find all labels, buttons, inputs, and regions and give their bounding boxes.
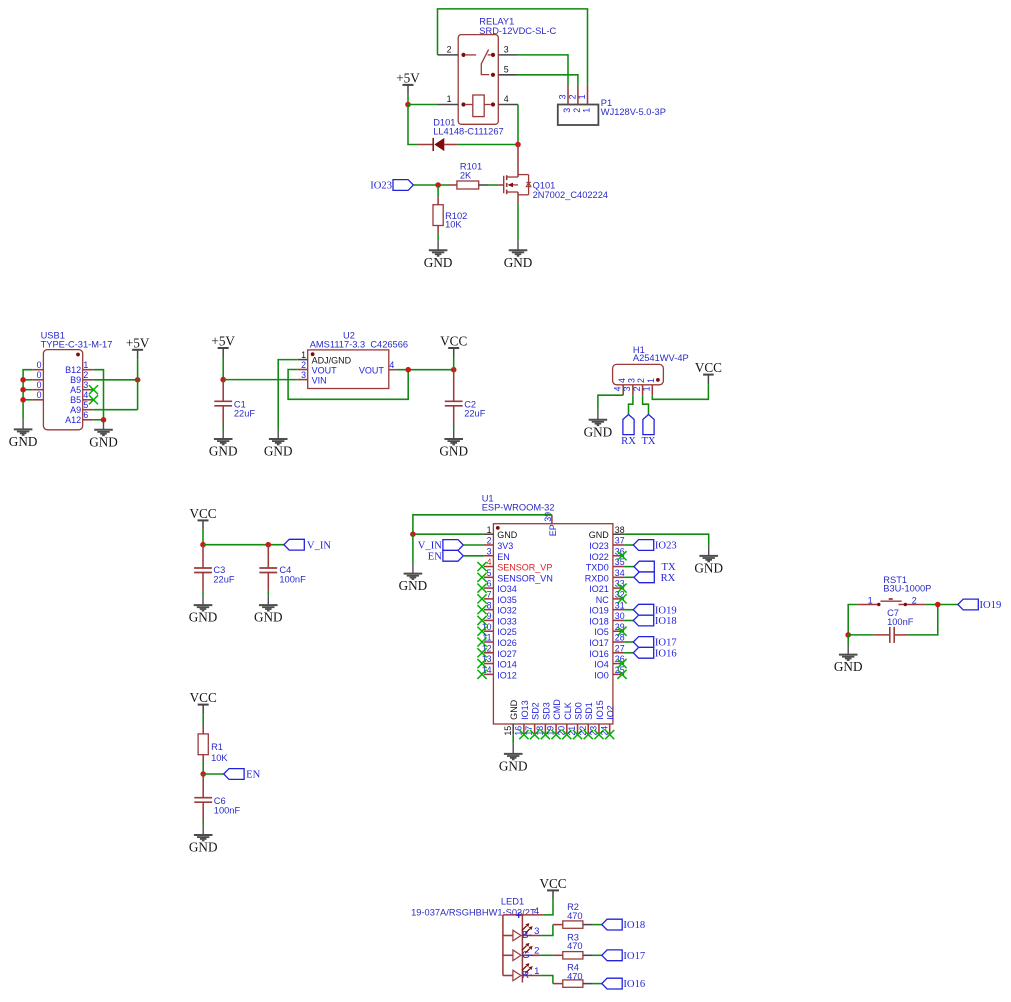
svg-text:470: 470	[567, 911, 583, 921]
wire R4 to IO16	[593, 983, 602, 985]
svg-text:GND: GND	[264, 444, 293, 459]
svg-text:2: 2	[632, 386, 642, 391]
ground (U1 pin38)	[699, 546, 718, 562]
wire +5V rail down to D101 cathode	[408, 105, 417, 145]
wire U2 VOUT feedback loop	[288, 370, 408, 400]
wire VCC to R1	[202, 714, 204, 724]
no-connect U1 pin 23	[594, 730, 603, 739]
svg-text:6: 6	[487, 579, 492, 589]
power VCC (H1)	[707, 375, 709, 385]
wire U1 pin15 to GND	[512, 735, 514, 744]
wire VCC rail to V_IN	[203, 544, 284, 546]
no-connect U1 pin 18	[541, 730, 550, 739]
svg-text:IO2: IO2	[606, 705, 616, 720]
svg-text:IO16: IO16	[589, 649, 609, 659]
capacitor C3 22uF	[194, 545, 235, 591]
no-connect U1 pin 12	[477, 648, 486, 657]
U1 pin 20 CLK	[556, 702, 572, 735]
resistor R101 2K	[449, 161, 488, 189]
wire H1 pin3 to RX	[629, 395, 633, 414]
svg-text:VCC: VCC	[189, 506, 216, 521]
wire EN node to EN port	[203, 773, 224, 775]
net flag IO19 (button)	[958, 599, 978, 610]
svg-text:1: 1	[534, 966, 539, 977]
junction USB1 GND	[101, 417, 107, 423]
U1 pin 30 IO18	[589, 611, 624, 626]
wire H1 pin1 to VCC	[652, 384, 708, 399]
wire relay pin 3 to P1 pin 3	[517, 55, 568, 85]
svg-text:0: 0	[37, 360, 42, 370]
svg-text:470: 470	[567, 941, 583, 951]
svg-text:37: 37	[615, 536, 625, 546]
svg-text:IO18: IO18	[623, 920, 645, 931]
U1 pin 2 3V3	[484, 536, 513, 551]
svg-text:22uF: 22uF	[234, 409, 256, 419]
capacitor C7 100nF	[874, 608, 914, 643]
wire C2 to GND	[453, 425, 455, 430]
svg-text:IO15: IO15	[595, 700, 605, 720]
svg-text:15: 15	[503, 726, 513, 736]
svg-text:+5V: +5V	[211, 334, 235, 349]
ground (C4)	[259, 595, 278, 611]
svg-text:23: 23	[589, 726, 599, 736]
svg-text:4: 4	[83, 390, 88, 400]
regulator U2 AMS1117-3.3	[298, 331, 408, 389]
wire U1 GND down	[412, 534, 414, 563]
U1 pin 29 IO5	[594, 622, 624, 637]
U1 pin 19 CMD	[546, 699, 562, 736]
svg-text:G-: G-	[522, 950, 533, 961]
U1 pin 35 TXD0	[586, 557, 625, 572]
svg-text:1: 1	[447, 94, 452, 104]
USB1 shield pin 0	[32, 369, 43, 371]
power +5V (relay rail)	[407, 85, 409, 95]
wire USB1 pin5 to +5V rail	[94, 409, 138, 411]
svg-text:SD0: SD0	[574, 702, 584, 720]
svg-text:VCC: VCC	[440, 334, 467, 349]
svg-text:3: 3	[301, 370, 306, 380]
U1 pin 4 SENSOR_VP	[484, 557, 552, 572]
no-connect USB1 pin 4	[89, 395, 98, 404]
svg-text:GND: GND	[9, 434, 38, 449]
svg-text:34: 34	[615, 568, 625, 578]
svg-text:B12: B12	[65, 365, 81, 375]
svg-text:IO12: IO12	[497, 670, 517, 680]
net flag IO19	[633, 604, 653, 615]
net port RX	[623, 415, 634, 435]
USB1 shield pin 0	[32, 399, 43, 401]
wire RST1 pin1 to GND/C7	[848, 605, 858, 635]
net flag IO16	[633, 647, 653, 658]
U1 pin 6 IO34	[484, 579, 517, 594]
wire H1 pin4 to GND	[598, 395, 623, 410]
wire +5V to U2 VIN	[223, 379, 298, 381]
svg-text:2N7002_C402224: 2N7002_C402224	[533, 190, 608, 200]
U1 pin 36 IO22	[589, 546, 624, 561]
svg-text:4: 4	[504, 94, 509, 104]
wire relay pin 2 to P1 pin 1 (top loop)	[438, 9, 588, 85]
svg-text:1: 1	[868, 595, 873, 605]
svg-text:1: 1	[487, 525, 492, 535]
no-connect U1 pin 6	[477, 584, 486, 593]
svg-text:16: 16	[514, 726, 524, 736]
power VCC (U2 output)	[453, 348, 455, 358]
svg-text:LL4148-C111267: LL4148-C111267	[433, 127, 503, 137]
junction C4 tap	[266, 542, 272, 548]
svg-text:3: 3	[504, 45, 509, 55]
USB1 pin 4 B5	[83, 399, 94, 401]
U1 pin 8 IO32	[484, 600, 517, 615]
U1 pin 27 IO16	[589, 643, 624, 658]
USB1 pin 3 A5	[83, 389, 94, 391]
svg-text:+5V: +5V	[396, 70, 420, 85]
junction +5V/C1/VIN	[220, 377, 226, 383]
wire U1 pin1 GND	[413, 533, 484, 535]
svg-text:B9: B9	[70, 375, 81, 385]
svg-text:GND: GND	[439, 444, 468, 459]
svg-text:TYPE-C-31-M-17: TYPE-C-31-M-17	[41, 339, 113, 349]
USB1 shield pin 0	[32, 389, 43, 391]
wire IO23 to R101	[413, 184, 449, 186]
wire D101 anode to Q101 drain	[457, 144, 518, 146]
resistor R4 470	[553, 963, 593, 988]
ground (Q101 source)	[509, 240, 528, 256]
junction EN node	[200, 771, 206, 777]
svg-text:IO25: IO25	[497, 627, 517, 637]
svg-text:3V3: 3V3	[497, 541, 513, 551]
no-connect U1 pin29	[617, 627, 626, 636]
svg-text:IO35: IO35	[497, 595, 517, 605]
svg-text:2K: 2K	[460, 170, 472, 180]
wire U1 pin35 to TX	[624, 566, 634, 568]
net flag IO16 (LED)	[602, 978, 622, 989]
svg-text:7: 7	[487, 589, 492, 599]
svg-text:IO23: IO23	[655, 541, 677, 552]
wire VCC to LED1 pin4	[543, 900, 553, 915]
svg-text:IO23: IO23	[589, 541, 609, 551]
no-connect USB1 pin 3	[89, 385, 98, 394]
svg-text:3: 3	[83, 380, 88, 390]
power VCC (R1)	[202, 705, 204, 715]
svg-text:0: 0	[37, 380, 42, 390]
svg-text:6: 6	[83, 410, 88, 420]
svg-text:17: 17	[524, 726, 534, 736]
connector P1 WJ128V-5.0-3P	[558, 85, 666, 125]
svg-text:V_IN: V_IN	[418, 541, 442, 552]
resistor R102 10K	[433, 198, 467, 234]
svg-text:VCC: VCC	[695, 360, 722, 375]
no-connect U1 pin 11	[477, 637, 486, 646]
svg-text:VOUT: VOUT	[312, 366, 338, 376]
svg-text:IO19: IO19	[980, 600, 1002, 611]
svg-text:3: 3	[622, 386, 632, 391]
wire USB1 shield pins to GND	[23, 370, 32, 420]
wire C6 to GND	[202, 821, 204, 826]
svg-text:SENSOR_VP: SENSOR_VP	[497, 563, 552, 573]
svg-text:RXD0: RXD0	[585, 573, 609, 583]
power VCC (C3/C4)	[202, 520, 204, 530]
wire U2 ADJ/GND to ground	[278, 360, 298, 429]
junction +5V/relay pin 1	[405, 102, 411, 108]
U1 pin 12 IO27	[482, 643, 517, 658]
svg-text:EN: EN	[246, 770, 260, 781]
ground (C1)	[214, 429, 233, 445]
svg-text:VCC: VCC	[539, 876, 566, 891]
wire LED B to R2	[540, 925, 553, 936]
wire U1 pin30 to IO18	[624, 620, 633, 622]
svg-text:IO18: IO18	[655, 616, 677, 627]
svg-text:GND: GND	[89, 434, 118, 449]
no-connect U1 pin 17	[530, 730, 539, 739]
junction shield row4	[20, 397, 26, 403]
svg-text:NC: NC	[596, 595, 609, 605]
svg-text:2: 2	[301, 360, 306, 370]
no-connect U1 pin 7	[477, 594, 486, 603]
svg-text:5: 5	[504, 65, 509, 75]
no-connect U1 pin36	[617, 551, 626, 560]
ground (U1 pin1/EP)	[404, 564, 423, 580]
wire USB1 pin2 to +5V	[94, 379, 138, 381]
wire C4 to GND	[267, 591, 269, 595]
wire C3 to GND	[202, 591, 204, 595]
svg-text:22uF: 22uF	[464, 409, 486, 419]
U1 pin 32 NC	[596, 589, 625, 604]
ground (C2)	[444, 429, 463, 445]
svg-text:GND: GND	[189, 840, 218, 855]
net flag TX	[634, 561, 654, 572]
svg-text:3: 3	[558, 94, 568, 99]
svg-text:R-: R-	[522, 970, 533, 981]
module U1 ESP-WROOM-32	[482, 494, 613, 725]
wire U1 pin31 to IO19	[624, 609, 633, 611]
wire Q101 source to GND	[517, 204, 519, 240]
svg-text:IO23: IO23	[370, 181, 392, 192]
svg-text:A9: A9	[70, 405, 81, 415]
ground (R102)	[429, 240, 448, 256]
junction RST1 right	[935, 602, 941, 608]
svg-text:R1: R1	[211, 742, 223, 752]
resistor R2 470	[553, 902, 593, 928]
U1 pin 9 IO33	[484, 611, 517, 626]
svg-text:LED1: LED1	[501, 897, 524, 907]
U1 pin 37 IO23	[589, 536, 624, 551]
ground (RST1)	[839, 645, 858, 661]
no-connect U1 pin 10	[477, 627, 486, 636]
svg-text:GND: GND	[589, 530, 610, 540]
svg-text:GND: GND	[504, 255, 533, 270]
svg-text:RX: RX	[621, 436, 636, 447]
wire U2 pin4 to VCC	[397, 369, 454, 371]
svg-text:20: 20	[556, 726, 566, 736]
svg-text:RX: RX	[661, 573, 676, 584]
U1 pin 7 IO35	[484, 589, 517, 604]
svg-text:19: 19	[546, 726, 556, 736]
svg-text:IO34: IO34	[497, 584, 517, 594]
svg-text:1: 1	[301, 350, 306, 360]
svg-text:GND: GND	[189, 610, 218, 625]
svg-text:27: 27	[615, 643, 625, 653]
svg-text:B-: B-	[522, 930, 532, 941]
svg-text:SD1: SD1	[584, 702, 594, 720]
junction +5V/USB	[135, 377, 141, 383]
net flag RX	[634, 572, 654, 583]
svg-text:VCC: VCC	[190, 690, 217, 705]
junction VCC/C2	[451, 367, 457, 373]
wire USB1 pin6 to GND	[94, 419, 104, 421]
junction U1 GND	[410, 531, 416, 537]
svg-text:IO17: IO17	[655, 638, 677, 649]
ground (USB1 pin6)	[94, 420, 113, 436]
wire R101 to Q101 gate	[488, 184, 499, 186]
resistor R1 10K	[198, 725, 228, 763]
relay RELAY1 SRD-12VDC-SL-C	[438, 17, 557, 125]
svg-text:A12: A12	[65, 415, 81, 425]
svg-text:IO32: IO32	[497, 606, 517, 616]
resistor R3 470	[553, 933, 593, 959]
no-connect U1 pin 4	[477, 562, 486, 571]
no-connect U1 pin 8	[477, 605, 486, 614]
svg-text:2: 2	[534, 946, 539, 957]
svg-text:A2541WV-4P: A2541WV-4P	[633, 353, 689, 363]
svg-text:2: 2	[572, 108, 582, 113]
svg-text:CLK: CLK	[563, 702, 573, 720]
LED LED1 19-037A/RSGHBHW1-S03/2T	[411, 897, 543, 983]
svg-text:TXD0: TXD0	[586, 563, 609, 573]
wire R2 to IO18	[593, 924, 602, 926]
U1 pin 15 GND	[503, 699, 519, 735]
U1 pin 13 IO14	[482, 654, 517, 669]
svg-text:1: 1	[581, 108, 591, 113]
svg-text:IO19: IO19	[655, 605, 677, 616]
U1 pin 5 SENSOR_VN	[484, 568, 553, 583]
no-connect U1 pin33	[617, 584, 626, 593]
ground (U1 pin15)	[504, 744, 523, 760]
U1 pin 34 RXD0	[585, 568, 625, 583]
U1 pin 31 IO19	[589, 600, 624, 615]
U1 pin 14 IO12	[482, 665, 517, 680]
wire relay pin 4 down to D101/Q101 drain	[517, 105, 519, 145]
svg-text:2: 2	[568, 94, 578, 99]
no-connect U1 pin 5	[477, 573, 486, 582]
ground (H1 pin4)	[589, 410, 608, 426]
U1 pin 25 IO0	[594, 665, 624, 680]
svg-text:18: 18	[535, 726, 545, 736]
svg-text:GND: GND	[424, 255, 453, 270]
svg-text:IO26: IO26	[497, 638, 517, 648]
transistor Q101 2N7002_C402224	[498, 145, 608, 204]
U1 pin 39 EP	[543, 512, 558, 536]
svg-text:GND: GND	[497, 530, 518, 540]
svg-text:VOUT: VOUT	[359, 366, 385, 376]
no-connect U1 pin 13	[477, 659, 486, 668]
svg-text:ESP-WROOM-32: ESP-WROOM-32	[482, 503, 555, 513]
USB1 pin 1 B12	[83, 369, 94, 371]
U1 pin 22 SD1	[578, 702, 594, 735]
wire EN to U1 EN	[463, 555, 484, 557]
svg-text:30: 30	[615, 611, 625, 621]
svg-text:IO17: IO17	[589, 638, 609, 648]
U1 pin 21 SD0	[567, 702, 583, 735]
svg-text:10K: 10K	[445, 220, 462, 230]
wire V_IN to U1 3V3	[463, 544, 484, 546]
svg-text:3: 3	[534, 926, 539, 937]
wire U1 pin38 to GND	[624, 534, 709, 546]
U1 pin 24 IO2	[599, 705, 615, 735]
svg-text:IO33: IO33	[497, 616, 517, 626]
svg-text:IO18: IO18	[589, 616, 609, 626]
svg-text:19-037A/RSGHBHW1-S03/2T: 19-037A/RSGHBHW1-S03/2T	[411, 908, 536, 918]
no-connect U1 pin 22	[584, 730, 593, 739]
svg-text:GND: GND	[694, 561, 723, 576]
svg-text:8: 8	[487, 600, 492, 610]
USB1 shield pin 0	[32, 379, 43, 381]
svg-text:1: 1	[642, 386, 652, 391]
wire USB1 pin1 to pin6 (GND)	[94, 370, 104, 420]
svg-text:Q101: Q101	[533, 180, 556, 190]
wire R102 to GND	[437, 233, 439, 240]
svg-text:4: 4	[613, 386, 623, 391]
wire C7 right / RST1 pin2 to IO19	[907, 605, 938, 635]
svg-text:GND: GND	[584, 424, 613, 439]
svg-text:EP: EP	[548, 524, 558, 536]
no-connect U1 pin 19	[551, 730, 560, 739]
no-connect U1 pin 21	[573, 730, 582, 739]
svg-text:IO21: IO21	[589, 584, 609, 594]
wire C7 left	[848, 634, 874, 636]
no-connect U1 pin32	[617, 594, 626, 603]
svg-text:2: 2	[487, 536, 492, 546]
svg-text:2: 2	[636, 378, 646, 383]
wire +5V to relay pin 1	[408, 104, 438, 106]
wire VCC down to C2	[453, 358, 455, 370]
no-connect U1 pin 16	[519, 730, 528, 739]
wire R1 to EN node	[202, 761, 204, 775]
no-connect U1 pin 20	[562, 730, 571, 739]
power VCC (LED1)	[552, 890, 554, 900]
svg-text:39: 39	[543, 512, 553, 522]
svg-text:4: 4	[617, 378, 627, 383]
svg-text:V_IN: V_IN	[307, 540, 331, 551]
header H1 A2541WV-4P	[613, 345, 689, 395]
svg-text:0: 0	[37, 390, 42, 400]
svg-text:B3U-1000P: B3U-1000P	[883, 584, 931, 594]
net flag IO23	[633, 540, 653, 551]
svg-text:4: 4	[389, 360, 394, 370]
svg-text:IO16: IO16	[623, 979, 645, 990]
net flag IO17	[633, 637, 653, 648]
ground (C3)	[194, 595, 213, 611]
no-connect U1 pin 24	[605, 730, 614, 739]
svg-text:IO0: IO0	[594, 670, 609, 680]
svg-text:10K: 10K	[211, 753, 228, 763]
svg-text:IO14: IO14	[497, 660, 517, 670]
svg-text:A5: A5	[70, 385, 81, 395]
junction IO23/R101/R102	[435, 182, 441, 188]
power +5V (USB1)	[137, 350, 139, 360]
U1 pin 26 IO4	[594, 654, 624, 669]
junction VOUT loop	[405, 367, 411, 373]
ground (U2 ADJ)	[269, 429, 288, 445]
svg-text:1: 1	[83, 360, 88, 370]
diode D101 LL4148-C111267	[417, 118, 503, 152]
svg-text:GND: GND	[834, 659, 863, 674]
svg-text:AMS1117-3.3 C426566: AMS1117-3.3 C426566	[310, 339, 408, 349]
wire U1 pin28 to IO17	[624, 641, 633, 643]
ground (C6)	[194, 825, 213, 841]
svg-text:4: 4	[534, 906, 539, 917]
svg-text:21: 21	[567, 726, 577, 736]
U1 pin 11 IO26	[482, 633, 516, 648]
